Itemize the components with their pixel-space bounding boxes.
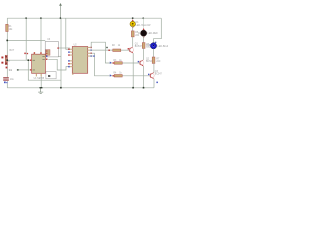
node junction dot ground at rail [40,87,41,88]
wire capacitor to bottom rail [6,81,8,88]
wire bottom ground rail [7,87,154,89]
resistor R4 horizontal [113,73,122,77]
node junction dot x61 bottom rail [60,87,62,89]
wire U3 box to IC2 [58,47,69,49]
wire IC2 pin1 up and over to resistor R3 row [90,42,114,63]
node logic state dot pin4 [93,55,94,56]
node junction dot rail x26.2 [25,17,26,18]
component U3 oscillator box [45,39,59,57]
wire resistor R5 to Q1 collector [132,37,134,47]
svg-text:BC547: BC547 [135,46,143,48]
wire IC1 lower left pin stub [18,69,30,71]
resistor R7 vertical blue branch [152,57,161,63]
ground symbol bottom [38,88,43,94]
transistor Q3 BC547 [150,71,163,79]
node logic state dot Q3 emitter [156,82,158,84]
node junction dot button line x28.3 [28,59,30,61]
wire resistor R7 to Q3 collector [153,63,155,72]
node junction dot rail x132.7 yellow LED tap [132,17,134,19]
wire Q2 emitter to bottom rail [143,66,145,88]
wire Q1 emitter to bottom rail [132,53,134,88]
wire left vertical R1 to button node [6,31,8,59]
wire right border drop to blue LED feed [154,18,162,43]
wire rail drop x65.8 to IC2 pin feed [66,18,70,49]
wire button line to IC1 left pin [7,59,31,61]
node junction dot R1 bottom x7.3 y40.5 [6,40,8,42]
wire reset line from R1 node to U3 box [7,40,45,42]
wire blue LED to resistor R7 [153,49,155,57]
node junction dot button x7.3 y60.2 [6,59,8,61]
LED D1 yellow [130,19,151,27]
node state squares x26 wire near IC1 [24,53,26,55]
wire IC2 pin3 to resistor R4 [90,53,114,76]
LED D3 blue [146,42,169,49]
node logic state dot Q2 base [138,61,139,62]
wire rail drop x61 long vertical to bottom rail [60,18,62,88]
node junction dot Q2 emitter at rail [143,87,145,89]
wire resistor R6 to Q2 collector [143,48,145,59]
node logic state dot Q1 base [128,48,129,49]
node logic state dot R3 [113,62,114,63]
wire button node drop to ground net [28,60,61,80]
node junction dot power rail at x60.5 [60,17,61,18]
svg-text:LED-BLUE: LED-BLUE [158,46,168,48]
node junction dot IC1 ground wire at rail [41,87,42,88]
wire rail to black LED anode [142,18,144,28]
wire resistor R4 to Q3 base [122,75,150,77]
wire IC2 pin4 stub [90,55,93,57]
wire rail drop x41 to IC1 top pin [40,18,42,54]
resistor R1 vertical top left [6,24,13,31]
wire resistor R2 to Q1 base [121,49,130,51]
wire left border vertical [6,18,8,24]
wire IC1 right pin to IC2 left pin [48,59,70,70]
svg-text:LED-RED: LED-RED [148,33,158,35]
node junction dot rail x143.2 red LED tap [143,18,144,19]
wire left vertical button node to capacitor [6,60,8,78]
wire IC2 pin2 to resistor R2 [90,49,113,51]
LED D2 red off [138,28,158,36]
wire red LED to resistor R6 [143,36,145,43]
transistor Q2 BC547 [139,58,153,66]
node logic state arrow R3 left [110,62,112,65]
resistor R2 horizontal [112,45,121,51]
node logic state dot R4 [113,75,114,76]
wire resistor R3 to Q2 base [122,62,140,64]
resistor R3 horizontal [113,60,122,64]
node logic state dot R2 left [108,50,110,52]
microcontroller IC U2 DIP [68,44,92,75]
wire Q3 emitter to bottom rail [153,79,155,88]
svg-text:LED-YELLOW: LED-YELLOW [136,25,152,27]
power symbol +V arrow [59,3,62,18]
wire IC1 right pin to x61 vertical [48,55,61,57]
svg-text:BUT: BUT [10,50,15,52]
wire IC1 ground pin to bottom rail [40,73,42,88]
wire yellow LED to resistor R5 [132,26,134,31]
transistor Q1 BC547 [129,44,143,54]
svg-text:U1 NE555: U1 NE555 [34,78,45,80]
wire top power rail [7,17,161,19]
node junction dot Q1 emitter at rail [132,87,134,89]
component annotation box with dash [46,72,56,79]
node logic state dot Q3 base [148,74,149,75]
svg-text:BC547: BC547 [155,74,163,76]
resistor R5 vertical yellow branch [131,31,139,37]
node net stub tick [17,69,19,70]
op-amp timer IC U1 DIP [30,52,48,80]
push button BUT [1,50,14,68]
node state square pin1 wire [106,47,107,48]
wire rail drop x26 to button line [25,18,27,60]
node logic state arrow R4 left [110,74,112,77]
resistor R6 vertical red branch [142,43,151,49]
capacitor C1 electrolytic [3,69,14,83]
node junction dot rail x41 [40,17,41,18]
